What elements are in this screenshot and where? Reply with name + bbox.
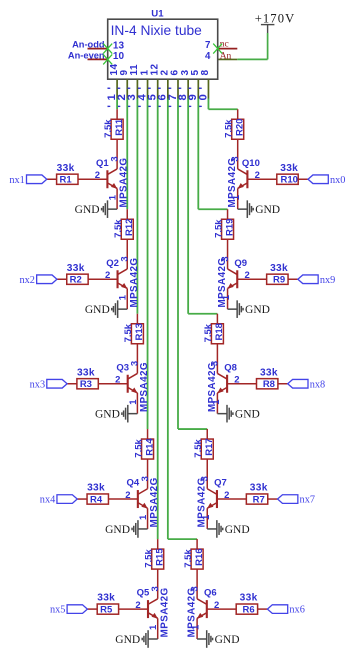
wire tube pin to R12 bbox=[126, 99, 128, 210]
svg-text:33k: 33k bbox=[250, 483, 268, 494]
svg-text:33k: 33k bbox=[240, 593, 258, 604]
resistor R10 33k bbox=[277, 163, 298, 186]
svg-text:Q1: Q1 bbox=[96, 158, 109, 169]
svg-text:R13: R13 bbox=[134, 323, 145, 340]
resistor R17 7.5k bbox=[193, 429, 215, 489]
svg-text:R19: R19 bbox=[224, 219, 235, 236]
svg-text:R4: R4 bbox=[90, 494, 103, 505]
svg-text:GND: GND bbox=[75, 204, 100, 216]
svg-text:R1: R1 bbox=[60, 175, 73, 186]
svg-text:An: An bbox=[220, 51, 232, 61]
resistor R20 7.5k bbox=[223, 109, 245, 169]
svg-text:7.5k: 7.5k bbox=[183, 549, 194, 568]
svg-text:R10: R10 bbox=[280, 175, 297, 186]
svg-text:IN-4 Nixie tube: IN-4 Nixie tube bbox=[111, 23, 203, 38]
wire tube pin to R11 bbox=[116, 99, 118, 110]
svg-text:+170V: +170V bbox=[255, 12, 296, 26]
svg-text:R5: R5 bbox=[100, 605, 113, 616]
svg-text:GND: GND bbox=[245, 304, 270, 316]
wire R8 to label nx8 bbox=[278, 383, 288, 385]
wire base Q10 to R10 bbox=[247, 178, 276, 180]
svg-text:nx8: nx8 bbox=[310, 379, 325, 390]
resistor R1 33k bbox=[57, 163, 78, 186]
wire R9 to label nx9 bbox=[288, 278, 298, 280]
wire label nx1 to R1 bbox=[47, 178, 57, 180]
svg-text:1: 1 bbox=[118, 294, 129, 300]
ground bbox=[105, 520, 147, 538]
wire tube pin to R18 bbox=[188, 99, 217, 314]
tube pin 14 name '1' bbox=[106, 63, 120, 107]
svg-text:Q10: Q10 bbox=[242, 158, 260, 169]
hierarchical label nx8 bbox=[288, 379, 325, 390]
svg-text:R2: R2 bbox=[70, 275, 82, 286]
svg-text:GND: GND bbox=[215, 634, 240, 646]
svg-text:nx6: nx6 bbox=[289, 605, 304, 616]
svg-text:GND: GND bbox=[255, 204, 280, 216]
svg-text:7.5k: 7.5k bbox=[113, 219, 124, 238]
resistor R9 33k bbox=[267, 263, 288, 286]
resistor R19 7.5k bbox=[213, 209, 235, 269]
resistor R7 33k bbox=[246, 483, 267, 506]
svg-text:MPSA42G: MPSA42G bbox=[139, 362, 150, 412]
svg-text:MPSA42G: MPSA42G bbox=[217, 258, 228, 308]
wire base Q9 to R9 bbox=[237, 278, 266, 280]
hierarchical label nx9 bbox=[298, 275, 335, 286]
svg-text:U1: U1 bbox=[151, 8, 164, 19]
transistor Q10 MPSA42G bbox=[227, 156, 260, 209]
svg-text:Q5: Q5 bbox=[137, 588, 150, 599]
resistor R6 33k bbox=[236, 593, 257, 616]
transistor Q4 MPSA42G bbox=[125, 476, 160, 529]
svg-text:R6: R6 bbox=[243, 605, 255, 616]
svg-text:GND: GND bbox=[225, 524, 250, 536]
svg-text:33k: 33k bbox=[67, 263, 85, 274]
svg-text:R14: R14 bbox=[144, 438, 155, 456]
svg-text:7: 7 bbox=[205, 40, 210, 51]
svg-text:Q6: Q6 bbox=[204, 588, 217, 599]
tube pin 11 name '3' bbox=[126, 64, 140, 108]
wire tube pin to R13 bbox=[136, 99, 138, 314]
svg-text:GND: GND bbox=[95, 409, 120, 421]
wire R3 to base Q3 bbox=[98, 383, 127, 385]
hierarchical label nx6 bbox=[267, 605, 304, 616]
wire tube pin to R17 bbox=[178, 99, 207, 430]
svg-text:7.5k: 7.5k bbox=[123, 323, 134, 342]
svg-text:33k: 33k bbox=[77, 367, 95, 378]
transistor Q5 MPSA42G bbox=[135, 586, 170, 639]
transistor Q3 MPSA42G bbox=[115, 361, 150, 414]
resistor R13 7.5k bbox=[123, 314, 145, 374]
svg-text:nx0: nx0 bbox=[330, 175, 345, 186]
ground bbox=[115, 630, 157, 648]
pin 10 An-even bbox=[68, 50, 125, 62]
svg-text:33k: 33k bbox=[97, 593, 115, 604]
svg-text:nx1: nx1 bbox=[9, 175, 24, 186]
resistor R12 7.5k bbox=[113, 209, 135, 269]
svg-text:MPSA42G: MPSA42G bbox=[129, 258, 140, 308]
transistor Q8 MPSA42G bbox=[207, 361, 240, 414]
resistor R8 33k bbox=[257, 367, 278, 390]
hierarchical label nx3 bbox=[30, 379, 67, 390]
wire tube pin to R20 bbox=[208, 99, 237, 110]
transistor Q1 MPSA42G bbox=[95, 156, 130, 209]
svg-text:1: 1 bbox=[128, 399, 139, 405]
tube pin 9 name '2' bbox=[116, 69, 130, 107]
hierarchical label nx1 bbox=[9, 175, 46, 186]
tube pin 8 name '0' bbox=[197, 69, 211, 107]
svg-text:7.5k: 7.5k bbox=[133, 438, 144, 457]
resistor R3 33k bbox=[77, 367, 98, 390]
pin 4 An bbox=[205, 51, 237, 62]
svg-text:R9: R9 bbox=[273, 275, 285, 286]
no-connect pin 7 bbox=[213, 44, 222, 54]
wire base Q7 to R7 bbox=[217, 498, 246, 500]
resistor R16 7.5k bbox=[183, 539, 205, 599]
ground bbox=[217, 405, 259, 423]
svg-text:Q7: Q7 bbox=[214, 478, 227, 489]
wire R1 to base Q1 bbox=[78, 178, 107, 180]
svg-text:GND: GND bbox=[105, 524, 130, 536]
svg-text:MPSA42G: MPSA42G bbox=[227, 158, 238, 208]
wire R7 to label nx7 bbox=[268, 498, 278, 500]
svg-text:GND: GND bbox=[85, 304, 110, 316]
wire tube pin to R14 bbox=[147, 99, 149, 430]
svg-text:An-odd: An-odd bbox=[72, 40, 105, 50]
tube pin 1 name '4' bbox=[136, 69, 150, 107]
transistor Q2 MPSA42G bbox=[105, 256, 140, 309]
wire base Q6 to R6 bbox=[207, 608, 236, 610]
svg-text:nx7: nx7 bbox=[300, 495, 315, 506]
tube pin 12 name '5' bbox=[147, 63, 161, 107]
wire label nx2 to R2 bbox=[57, 278, 67, 280]
svg-text:R11: R11 bbox=[114, 118, 125, 136]
ground bbox=[85, 300, 127, 318]
svg-text:MPSA42G: MPSA42G bbox=[197, 477, 208, 527]
resistor R2 33k bbox=[67, 263, 88, 286]
wire R4 to base Q4 bbox=[108, 498, 137, 500]
ground bbox=[75, 200, 117, 218]
svg-text:R12: R12 bbox=[124, 219, 135, 236]
ground bbox=[95, 405, 137, 423]
svg-text:R16: R16 bbox=[194, 548, 205, 565]
ground bbox=[228, 300, 270, 318]
ground bbox=[238, 200, 280, 218]
no-connect pin 13 bbox=[103, 44, 112, 54]
svg-text:Q4: Q4 bbox=[127, 478, 140, 489]
svg-text:An-even: An-even bbox=[68, 50, 105, 60]
svg-text:nx5: nx5 bbox=[50, 605, 65, 616]
wire R5 to base Q5 bbox=[119, 608, 148, 610]
svg-text:Q9: Q9 bbox=[234, 258, 247, 269]
transistor Q7 MPSA42G bbox=[197, 476, 230, 529]
svg-text:R17: R17 bbox=[204, 438, 215, 455]
svg-text:33k: 33k bbox=[87, 483, 105, 494]
tube pin 6 name '7' bbox=[167, 69, 181, 107]
svg-text:R3: R3 bbox=[80, 379, 92, 390]
wire tube pin to R15 bbox=[157, 99, 159, 540]
svg-text:R18: R18 bbox=[214, 323, 225, 340]
svg-text:7.5k: 7.5k bbox=[203, 323, 214, 342]
wire +170V to pin 4 An bbox=[237, 33, 267, 59]
hierarchical label nx2 bbox=[19, 275, 56, 286]
pin 7 nc bbox=[205, 40, 237, 52]
wire label nx4 to R4 bbox=[77, 498, 87, 500]
svg-text:R8: R8 bbox=[263, 379, 275, 390]
resistor R14 7.5k bbox=[133, 429, 155, 489]
tube pin 2 name '6' bbox=[157, 69, 171, 107]
ground bbox=[207, 520, 249, 538]
svg-text:7.5k: 7.5k bbox=[143, 549, 154, 568]
svg-text:R7: R7 bbox=[253, 494, 265, 505]
svg-text:nx4: nx4 bbox=[40, 495, 55, 506]
svg-text:10: 10 bbox=[113, 51, 125, 62]
svg-text:7.5k: 7.5k bbox=[193, 438, 204, 457]
svg-text:MPSA42G: MPSA42G bbox=[159, 587, 170, 637]
resistor R18 7.5k bbox=[203, 314, 225, 374]
svg-text:MPSA42G: MPSA42G bbox=[149, 477, 160, 527]
nixie tube U1 body bbox=[108, 8, 218, 79]
tube pin 5 name '9' bbox=[187, 69, 201, 107]
svg-text:33k: 33k bbox=[270, 263, 288, 274]
wire R10 to label nx0 bbox=[298, 178, 308, 180]
svg-text:nx9: nx9 bbox=[320, 275, 335, 286]
svg-text:7.5k: 7.5k bbox=[223, 119, 234, 138]
resistor R4 33k bbox=[87, 483, 108, 506]
svg-text:1: 1 bbox=[108, 194, 119, 200]
svg-text:33k: 33k bbox=[260, 367, 278, 378]
svg-text:8: 8 bbox=[200, 69, 211, 75]
wire tube pin to R19 bbox=[198, 99, 227, 210]
svg-text:nx2: nx2 bbox=[19, 275, 34, 286]
hierarchical label nx5 bbox=[50, 605, 87, 616]
svg-text:Q8: Q8 bbox=[224, 362, 237, 373]
wire label nx5 to R5 bbox=[87, 608, 97, 610]
svg-text:nx3: nx3 bbox=[30, 379, 45, 390]
svg-text:7.5k: 7.5k bbox=[213, 219, 224, 238]
hierarchical label nx0 bbox=[308, 175, 345, 186]
svg-text:Q2: Q2 bbox=[106, 258, 119, 269]
svg-text:MPSA42G: MPSA42G bbox=[207, 362, 218, 412]
svg-text:GND: GND bbox=[115, 634, 140, 646]
pin 13 An-odd bbox=[72, 40, 124, 52]
svg-text:MPSA42G: MPSA42G bbox=[119, 158, 130, 208]
svg-text:Q3: Q3 bbox=[116, 362, 129, 373]
svg-text:1: 1 bbox=[148, 624, 159, 630]
svg-text:4: 4 bbox=[205, 51, 211, 62]
svg-text:MPSA42G: MPSA42G bbox=[187, 587, 198, 637]
resistor R15 7.5k bbox=[143, 539, 165, 599]
ground bbox=[197, 630, 239, 648]
wire label nx3 to R3 bbox=[67, 383, 77, 385]
svg-text:33k: 33k bbox=[57, 163, 75, 174]
svg-text:GND: GND bbox=[235, 409, 260, 421]
hierarchical label nx7 bbox=[278, 495, 315, 506]
wire base Q8 to R8 bbox=[227, 383, 256, 385]
resistor R11 7.5k bbox=[103, 109, 125, 169]
transistor Q9 MPSA42G bbox=[217, 256, 250, 309]
svg-text:7.5k: 7.5k bbox=[103, 119, 114, 138]
wire R2 to base Q2 bbox=[88, 278, 117, 280]
svg-text:13: 13 bbox=[113, 40, 125, 51]
svg-text:33k: 33k bbox=[280, 163, 298, 174]
svg-text:R15: R15 bbox=[155, 548, 166, 566]
no-connect pin 10 bbox=[103, 54, 112, 64]
resistor R5 33k bbox=[97, 593, 118, 616]
svg-text:R20: R20 bbox=[235, 119, 246, 136]
power +170V bbox=[255, 12, 296, 34]
tube pin 3 name '8' bbox=[177, 69, 191, 107]
svg-text:1: 1 bbox=[138, 514, 149, 520]
hierarchical label nx4 bbox=[40, 495, 77, 506]
wire R6 to label nx6 bbox=[258, 608, 268, 610]
transistor Q6 MPSA42G bbox=[187, 586, 220, 639]
wire tube pin to R16 bbox=[168, 99, 197, 540]
